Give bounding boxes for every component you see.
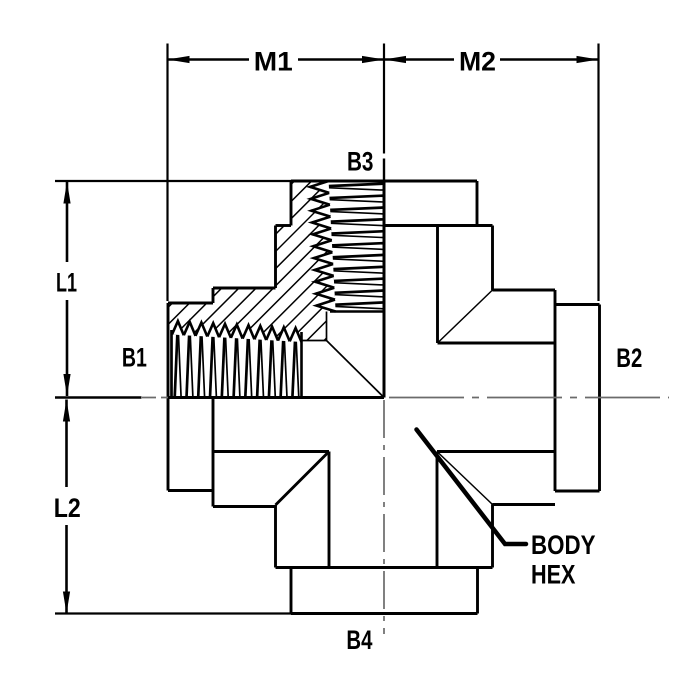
svg-text:B2: B2 xyxy=(616,343,642,373)
svg-text:B4: B4 xyxy=(346,625,372,655)
svg-text:B3: B3 xyxy=(347,147,374,177)
svg-text:HEX: HEX xyxy=(531,560,576,590)
svg-text:B1: B1 xyxy=(122,342,147,372)
svg-text:L2: L2 xyxy=(54,493,81,523)
svg-text:BODY: BODY xyxy=(531,530,596,560)
svg-text:L1: L1 xyxy=(56,267,77,297)
svg-text:M1: M1 xyxy=(254,47,293,77)
svg-text:M2: M2 xyxy=(459,46,496,76)
